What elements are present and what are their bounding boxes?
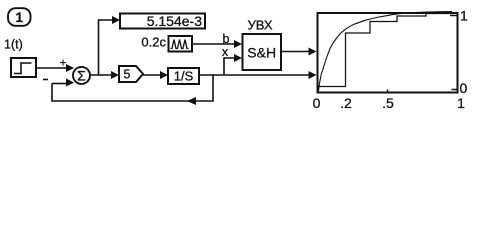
- svg-text:1: 1: [457, 95, 465, 111]
- svg-text:b: b: [223, 32, 230, 46]
- svg-text:x: x: [222, 45, 229, 59]
- svg-text:S&H: S&H: [247, 45, 276, 61]
- svg-text:5: 5: [124, 68, 131, 82]
- svg-text:УВХ: УВХ: [247, 18, 272, 33]
- svg-text:+: +: [59, 56, 66, 70]
- svg-text:1: 1: [460, 8, 468, 24]
- svg-text:.2: .2: [340, 95, 352, 111]
- svg-text:0: 0: [460, 80, 468, 96]
- svg-text:.5: .5: [382, 95, 394, 111]
- svg-text:0: 0: [313, 95, 321, 111]
- svg-text:1/S: 1/S: [174, 69, 194, 84]
- svg-text:5.154e-3: 5.154e-3: [147, 13, 202, 29]
- svg-text:1(t): 1(t): [4, 38, 23, 52]
- svg-text:1: 1: [15, 10, 23, 25]
- svg-text:Σ: Σ: [77, 67, 86, 83]
- svg-text:0.2c: 0.2c: [141, 35, 166, 50]
